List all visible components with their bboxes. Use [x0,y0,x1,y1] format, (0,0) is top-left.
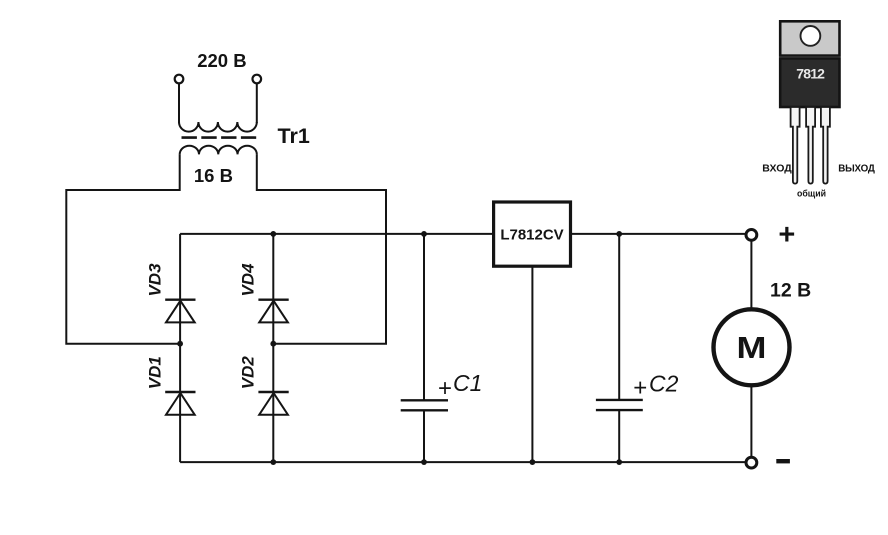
motor M1 [714,309,790,385]
IC 7812 pin 1 input leg [791,107,800,184]
svg-text:+: + [778,219,795,251]
node junction bridge mid left [177,341,183,347]
wire bottom rail (negative) [180,461,746,463]
node junction bridge bottom [270,459,276,465]
wire top rail left (bridge output + to regulator input) [180,233,494,235]
IC 7812 pin 3 output leg [821,107,830,184]
svg-text:C1: C1 [453,370,482,396]
svg-text:+: + [633,374,647,401]
svg-text:VD3: VD3 [146,263,165,297]
node junction C1 top [421,231,427,237]
regulator U1 L7812CV box [494,202,571,266]
svg-text:VD2: VD2 [239,356,258,390]
capacitor C2 lead top [618,234,620,400]
svg-text:общий: общий [797,189,826,199]
wire motor bottom lead [750,385,752,457]
node junction C2 bottom [616,459,622,465]
svg-text:ВХОД: ВХОД [762,163,792,175]
svg-text:VD1: VD1 [146,356,165,389]
label - output polarity [776,459,790,463]
transformer Tr1 primary terminal left [175,75,184,84]
svg-text:+: + [438,375,452,402]
IC 7812 mounting hole [801,26,821,46]
terminal + output [746,230,757,241]
svg-text:M: M [737,331,767,365]
IC package 7812 TO-220 [762,21,875,198]
node junction bridge top output [270,231,276,237]
wire secondary left lead [66,154,180,343]
svg-text:L7812CV: L7812CV [500,226,563,243]
transformer Tr1 primary winding [179,122,257,132]
transformer Tr1 core [182,136,257,139]
svg-text:12 В: 12 В [770,280,811,302]
wire primary left lead [178,84,180,123]
svg-text:Tr1: Tr1 [278,124,310,148]
diode VD3 [165,300,195,323]
IC 7812 heatsink tab [780,21,839,55]
diode VD2 [258,392,288,415]
wire secondary right lead [257,154,386,343]
node junction regulator ground [530,459,536,465]
svg-text:220 В: 220 В [197,50,246,71]
wire primary right lead [256,84,258,123]
wire motor top lead [750,240,752,309]
capacitor C2 lead bottom [618,410,620,462]
transformer Tr1 primary terminal right [252,75,261,84]
svg-text:VD4: VD4 [239,263,258,297]
diode VD4 [258,300,288,323]
IC 7812 pin 2 common leg [806,107,815,184]
capacitor C1 lead top [423,234,425,400]
wire top rail right (regulator output to + terminal) [571,233,747,235]
transformer Tr1 secondary winding [180,146,257,155]
svg-text:ВЫХОД: ВЫХОД [838,164,875,175]
IC 7812 body [780,58,839,107]
svg-text:16 В: 16 В [194,165,233,186]
svg-text:7812: 7812 [796,65,825,81]
node junction bridge mid right [270,341,276,347]
capacitor C1 plates [401,400,448,410]
node junction C2 top [616,231,622,237]
capacitor C2 plates [596,400,643,410]
node junction C1 bottom [421,459,427,465]
wire regulator ground pin [531,266,533,462]
capacitor C1 lead bottom [423,411,425,463]
svg-text:C2: C2 [649,371,679,397]
label M motor [737,331,767,365]
diode VD1 [165,392,195,415]
wire bridge column 2 [272,234,274,462]
wire bridge column 1 [179,234,181,462]
terminal - output [746,457,757,468]
